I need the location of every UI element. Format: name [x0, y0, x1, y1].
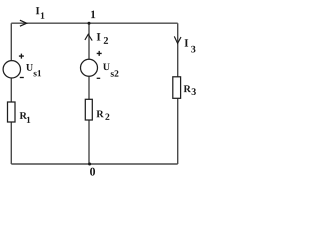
- wire middle: [88, 23, 90, 164]
- wire top: [11, 22, 177, 24]
- resistor R3: [173, 77, 181, 99]
- resistor R1: [8, 102, 16, 122]
- voltage source Us1: [3, 54, 24, 78]
- node 1 junction: [88, 22, 91, 25]
- wire right: [177, 23, 179, 164]
- label Us1: [26, 64, 41, 76]
- label R1: [20, 112, 31, 123]
- label Us2: [103, 63, 118, 76]
- wire bottom: [11, 163, 177, 165]
- arrow I1: [20, 20, 27, 26]
- arrow I3: [174, 36, 181, 43]
- voltage source Us2: [81, 51, 102, 78]
- node 0 junction: [88, 163, 91, 166]
- resistor R2: [85, 99, 92, 120]
- wire left: [10, 23, 12, 164]
- label I3: [185, 39, 196, 52]
- label R2: [96, 111, 109, 120]
- node 1 label: [91, 11, 95, 18]
- arrow I2: [85, 34, 92, 40]
- label I1: [36, 7, 45, 19]
- label I2: [97, 33, 108, 44]
- label R3: [184, 85, 196, 95]
- node 0 label: [90, 168, 95, 176]
